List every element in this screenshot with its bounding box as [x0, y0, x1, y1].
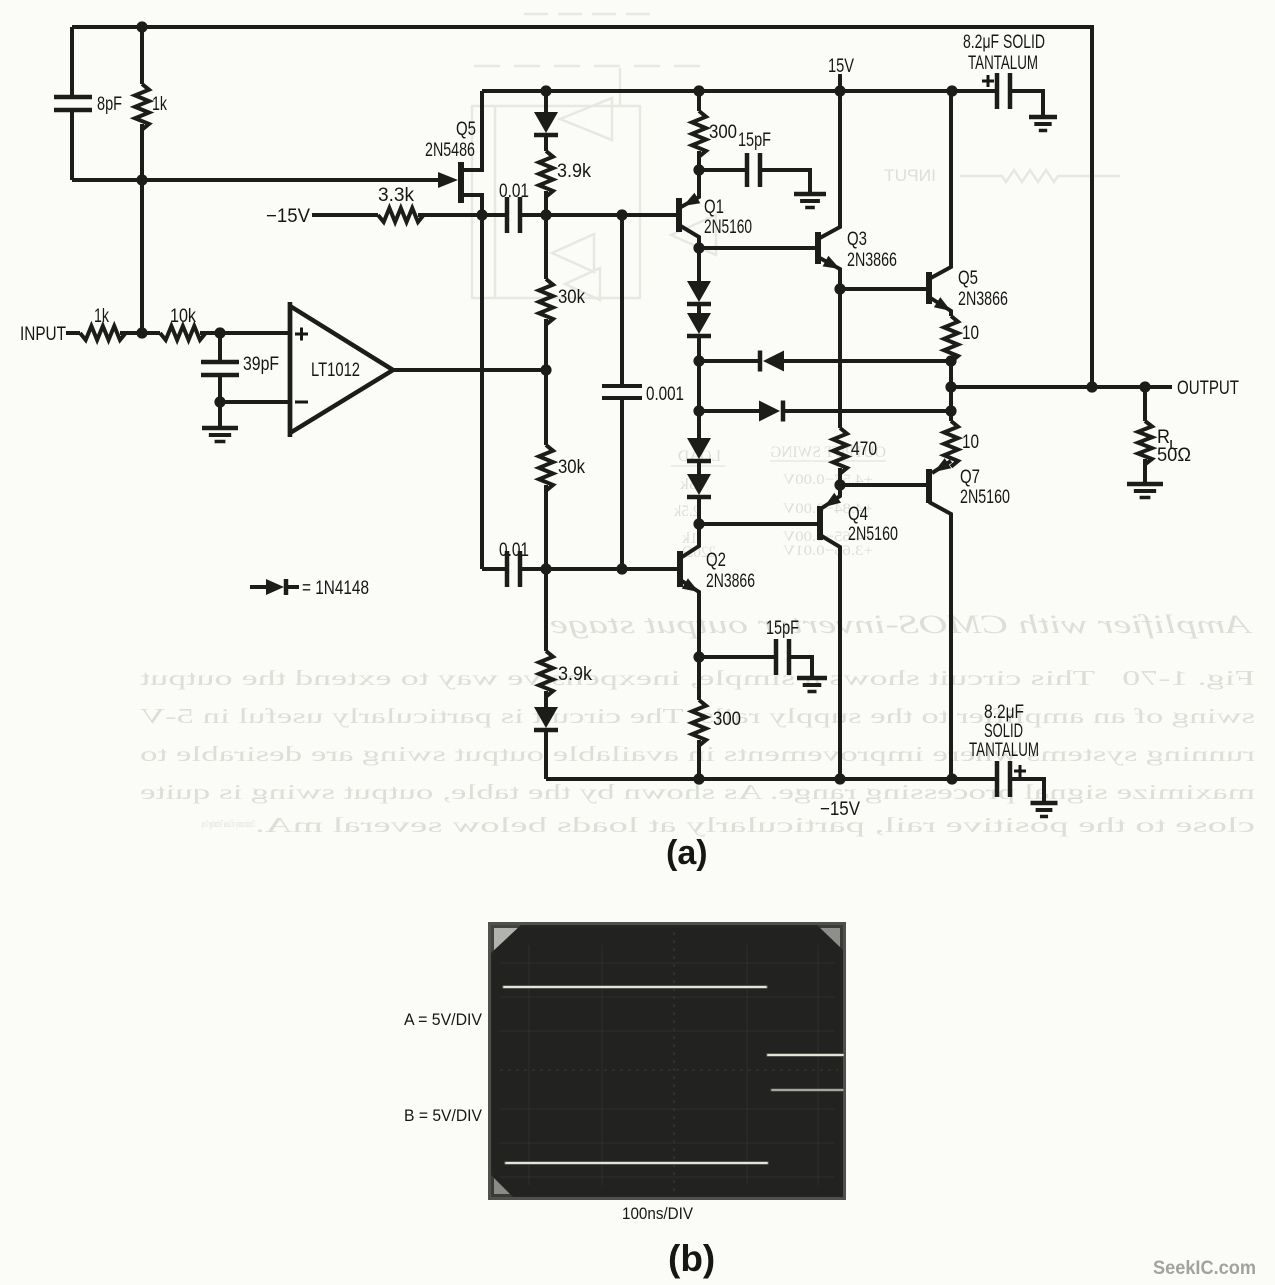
svg-text:0.01: 0.01 — [499, 181, 529, 202]
wire: 10k to op-amp + — [200, 331, 290, 335]
svg-text:2N5486: 2N5486 — [425, 140, 475, 161]
svg-text:= 1N4148: = 1N4148 — [302, 578, 369, 599]
wire: 0.01 to bias node — [522, 213, 677, 217]
wire: D7-D8 — [697, 461, 701, 474]
node: JFET source node — [476, 209, 487, 220]
wire: tantalum top to ground — [1012, 91, 1043, 115]
node: rail/300 bottom — [693, 773, 704, 784]
resistor 1k (feedback) — [135, 84, 149, 130]
resistor 3.9k (lower) — [539, 651, 553, 697]
wire: minus node to ground — [218, 402, 222, 426]
JFET Q5 2N5486 — [458, 162, 464, 203]
diode D5 (points left) — [763, 351, 784, 372]
wire: 300 lower to rail — [697, 740, 701, 779]
svg-text:OUTPUT: OUTPUT — [1177, 378, 1239, 399]
wire: x699 between bias buses — [697, 361, 701, 411]
svg-text:Amplifier with CMOS-inverter o: Amplifier with CMOS-inverter output stag… — [550, 610, 1253, 639]
diode D2 (bottom of 3.9k) — [534, 707, 558, 728]
resistor 3.9k (upper) — [539, 151, 553, 197]
node: bias node (3.9k/0.01) — [540, 209, 551, 220]
ground (15pF upper) — [794, 192, 826, 197]
node: Q2 collector / Q4 base node — [693, 518, 704, 529]
node: lower bias bus left — [693, 405, 704, 416]
wire: bias node to 30k — [544, 215, 548, 279]
capacitor 0.01 (lower) — [505, 551, 510, 587]
ground (RL) — [1127, 482, 1163, 487]
wire: D2 to -15V rail — [544, 730, 548, 779]
node: feedback tap on OUTPUT — [1086, 381, 1097, 392]
capacitor 0.01 (upper) — [505, 197, 510, 233]
svg-text:10: 10 — [962, 432, 979, 453]
svg-text:50Ω: 50Ω — [1157, 445, 1191, 466]
svg-text:3.3k: 3.3k — [378, 185, 414, 206]
capacitor 0.001 — [602, 384, 642, 388]
svg-text:Q4: Q4 — [848, 504, 868, 525]
legend diode 1N4148 — [250, 585, 266, 589]
wire: minus node to op-amp — [220, 400, 290, 404]
wire: 15pF lower to ground — [791, 657, 812, 676]
wire: Q1 collector to diode stack — [697, 248, 701, 281]
resistor 30k (upper) — [539, 279, 553, 325]
wire: Q2 collector node to Q4 base — [699, 522, 818, 526]
resistor 10k — [160, 326, 206, 340]
wire: 15V label tick — [838, 74, 842, 91]
ground (15pF lower) — [797, 676, 827, 681]
node: rail/Q5 collector — [946, 85, 957, 96]
node: rail/Q7 collector — [946, 773, 957, 784]
svg-text:+3.65−0.01V: +3.65−0.01V — [783, 543, 873, 559]
wire: 10 upper to bias bus — [949, 356, 953, 361]
wire: 0.001 lower lead — [620, 399, 624, 569]
wire: lower bias bus left segment — [699, 409, 759, 413]
transistor Q1 2N5160 — [676, 198, 682, 232]
svg-text:2N5160: 2N5160 — [704, 217, 752, 238]
wire: upper bias bus left segment — [699, 359, 760, 363]
svg-text:3.9k: 3.9k — [557, 161, 591, 182]
node: output column / OUTPUT wire — [945, 381, 956, 392]
capacitor 39pF — [201, 360, 239, 365]
node: Q1 emitter / 15pF tap — [693, 164, 704, 175]
wire: lower bias bus right segment — [783, 409, 951, 413]
wire: rail to diode D1 — [544, 91, 548, 112]
wire: output node to 30k lower — [544, 370, 548, 445]
svg-text:100ns/DIV: 100ns/DIV — [622, 1204, 694, 1223]
capacitor 8pF — [54, 95, 92, 100]
wire: 39pF to minus node — [218, 376, 222, 402]
capacitor C-tantalum top 8.2uF — [995, 73, 1000, 109]
svg-text:SeekIC.com: SeekIC.com — [1153, 1258, 1256, 1279]
gate arrowhead into Q5 — [438, 172, 458, 188]
svg-text:TANTALUM: TANTALUM — [969, 740, 1039, 761]
wire: -15V rail — [546, 777, 997, 781]
diode D8 — [687, 474, 711, 495]
svg-text:Q3: Q3 — [847, 229, 867, 250]
svg-text:2N3866: 2N3866 — [847, 250, 897, 271]
svg-text:(b): (b) — [668, 1238, 715, 1279]
svg-text:SOLID: SOLID — [984, 721, 1023, 742]
node: upper bias bus right — [945, 355, 956, 366]
node: op-amp + input node — [214, 327, 225, 338]
node: rail/diode-column — [540, 85, 551, 96]
wire: D8 to Q2 collector node — [697, 497, 701, 524]
transistor Q5 2N3866 (output) — [926, 272, 932, 304]
ground (39pF node) — [202, 426, 238, 431]
node: Q3 emitter node — [834, 283, 845, 294]
wire: Q2-base node down — [544, 569, 548, 651]
svg-text:2N3866: 2N3866 — [958, 289, 1008, 310]
wire: 30k to op-amp output node — [544, 319, 548, 370]
svg-text:A = 5V/DIV: A = 5V/DIV — [404, 1010, 483, 1029]
capacitor 15pF (lower) — [774, 639, 779, 675]
capacitor C-tantalum bottom 8.2uF — [995, 761, 1000, 797]
op-amp U1 LT1012 — [290, 306, 393, 433]
wire: input lead — [66, 331, 80, 335]
svg-text:8.2μF: 8.2μF — [984, 702, 1024, 723]
svg-text:8pF: 8pF — [97, 94, 122, 115]
svg-text:Q2: Q2 — [706, 550, 726, 571]
wire: 15pF upper to ground — [762, 170, 810, 192]
wire: 0.001 upper lead — [620, 215, 624, 384]
node: Q2 base coupling node — [540, 563, 551, 574]
svg-text:15pF: 15pF — [766, 618, 799, 639]
wire: source node down to Q2-base coupling — [480, 215, 484, 569]
wire: 15pF upper lead — [699, 168, 745, 172]
wire: Q4 node to Q7 base — [840, 483, 928, 487]
wire: 300 to Q1 emitter node — [697, 151, 701, 170]
svg-text:300: 300 — [709, 122, 737, 143]
transistor Q7 2N5160 — [926, 469, 932, 503]
resistor 1k (input) — [80, 326, 126, 340]
resistor 470 — [833, 428, 847, 474]
wire: Q2 emitter to 300 lower — [697, 657, 701, 700]
ground (tantalum top) — [1029, 115, 1057, 120]
diode D1 (top of 3.9k) — [534, 112, 558, 133]
wire: 1k/8pF node down to input node — [140, 180, 144, 333]
wire: rail to 300 upper — [697, 91, 701, 111]
wire: 3.9k to bias node — [544, 191, 548, 215]
svg-text:8.2μF SOLID: 8.2μF SOLID — [963, 32, 1045, 53]
node: Q2 emitter / 15pF-2 tap — [693, 651, 704, 662]
svg-text:Q5: Q5 — [958, 268, 978, 289]
wire: Q3 emitter down to 470 — [838, 289, 842, 428]
transistor Q3 2N3866 — [815, 232, 821, 264]
wire: 15pF lower lead — [699, 655, 774, 659]
node: rail/Q4 collector — [834, 773, 845, 784]
wire: 8pF branch lower — [70, 109, 74, 180]
node: feedback/1k junction at top — [136, 21, 147, 32]
svg-text:30k: 30k — [558, 457, 585, 478]
resistor RL load — [1138, 421, 1152, 464]
node: 0.001 bottom tap — [616, 563, 627, 574]
svg-text:INPUT: INPUT — [884, 166, 936, 185]
wire: 0.01 lower to Q2 base — [522, 567, 678, 571]
svg-text:B = 5V/DIV: B = 5V/DIV — [404, 1106, 483, 1125]
node: op-amp output junction — [540, 364, 551, 375]
svg-text:2N5160: 2N5160 — [848, 524, 898, 545]
diode D6 (points right) — [759, 401, 780, 422]
wire: feedback net from output top rail — [72, 27, 1092, 387]
wire: -15V feed to 3.3k — [312, 213, 378, 217]
capacitor 15pF (upper) — [745, 153, 750, 187]
svg-text:LT1012: LT1012 — [311, 360, 360, 381]
resistor 30k (lower) — [539, 445, 553, 491]
node: RL tap on OUTPUT — [1139, 381, 1150, 392]
wire: D4 to upper bias bus — [697, 336, 701, 361]
node: rail/Q3 collector — [834, 85, 845, 96]
node: Q4 emitter node — [834, 479, 845, 490]
svg-text:3.9k: 3.9k — [558, 664, 592, 685]
wire: +15V rail — [482, 89, 997, 93]
wire: between 1k and 10k — [120, 331, 160, 335]
svg-text:300: 300 — [713, 709, 741, 730]
wire: 3.3k to source node — [418, 213, 505, 217]
svg-text:1k: 1k — [152, 94, 167, 115]
wire: D3-D4 — [697, 304, 701, 313]
resistor 10 (upper) — [944, 316, 958, 362]
svg-text:−15V: −15V — [266, 206, 310, 227]
svg-text:−15V: −15V — [820, 799, 860, 820]
svg-text:2N3866: 2N3866 — [706, 571, 755, 592]
wire: upper bias bus right segment — [784, 359, 951, 363]
svg-text:0.01: 0.01 — [499, 540, 529, 561]
svg-text:10: 10 — [962, 323, 979, 344]
svg-text:2N5160: 2N5160 — [960, 487, 1010, 508]
node: op-amp - input node — [214, 396, 225, 407]
transistor Q4 2N5160 — [817, 506, 823, 540]
wire: 30k lower to Q2 base node — [544, 485, 548, 569]
svg-text:Q7: Q7 — [960, 467, 980, 488]
wire: 39pF branch — [218, 333, 222, 361]
svg-text:Q5: Q5 — [456, 119, 476, 140]
wire: lower bus to diode stack 2 — [697, 411, 701, 438]
node: Q1 collector node — [693, 242, 704, 253]
diode D4 — [687, 313, 711, 334]
wire: D1 to 3.9k — [544, 135, 548, 151]
wire: OUTPUT line — [951, 385, 1172, 389]
wire: Q3 emitter to Q5 base — [840, 287, 928, 291]
svg-text:INPUT: INPUT — [20, 324, 66, 345]
svg-text:15V: 15V — [828, 56, 854, 77]
wire: 1k branch lower to gate wire — [140, 124, 144, 180]
wire: op-amp output — [393, 368, 546, 372]
svg-text:close to the positive rail, pa: close to the positive rail, particularly… — [255, 813, 1255, 837]
ground (tantalum bottom) — [1031, 801, 1058, 806]
node: rail/300 — [693, 85, 704, 96]
transistor Q2 2N3866 — [677, 551, 683, 587]
resistor 300 (upper) — [692, 111, 706, 157]
resistor 3.3k — [378, 208, 424, 222]
node: input summing junction — [136, 327, 147, 338]
svg-text:0.001: 0.001 — [646, 384, 684, 405]
wire: 8pF branch upper — [70, 27, 74, 96]
svg-text:(a): (a) — [666, 834, 708, 872]
svg-text:30k: 30k — [558, 287, 585, 308]
wire: tantalum bottom to ground — [1012, 779, 1044, 801]
svg-text:39pF: 39pF — [243, 354, 279, 375]
svg-text:Q1: Q1 — [704, 197, 724, 218]
wire: source-branch to 0.01 lower — [482, 567, 505, 571]
wire: 470 to Q4 base node — [838, 468, 842, 485]
wire: 3.9k lower to D2 — [544, 691, 548, 707]
wire: 1k branch upper — [140, 27, 144, 84]
svg-text:2.5k: 2.5k — [674, 503, 700, 520]
svg-text:1k: 1k — [94, 306, 109, 327]
svg-text:15pF: 15pF — [738, 130, 771, 151]
wire: Q1 collector to Q3 base — [699, 246, 817, 250]
diode D7 — [687, 438, 711, 459]
node: upper bias bus left — [693, 355, 704, 366]
node: gate-wire junction — [136, 174, 147, 185]
resistor 300 (lower) — [692, 700, 706, 746]
resistor 10 (lower) — [944, 421, 958, 467]
node: lower bias bus right — [945, 405, 956, 416]
svg-text:10k: 10k — [170, 306, 196, 327]
diode D3 — [687, 281, 711, 302]
svg-text:Circuit courtesy of Linear Tec: Circuit courtesy of Linear Technology Co… — [201, 819, 255, 830]
svg-text:470: 470 — [851, 439, 877, 460]
node: 0.001 tap on Q1 base line — [616, 209, 627, 220]
wire: gate drive line — [72, 178, 446, 182]
svg-text:TANTALUM: TANTALUM — [968, 53, 1038, 74]
wire: bias bus to output node — [949, 361, 953, 411]
